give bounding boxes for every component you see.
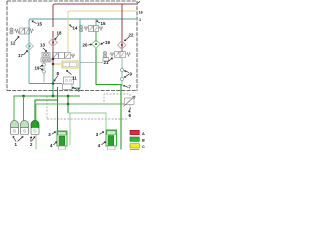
label 6 arrow xyxy=(128,108,130,113)
label 13 arrow xyxy=(43,48,47,52)
svg-text:14: 14 xyxy=(73,26,78,31)
node teal dot xyxy=(52,82,54,84)
label texts xyxy=(11,11,143,149)
svg-text:19: 19 xyxy=(105,40,110,45)
wire yellow bus xyxy=(68,11,136,52)
label 5 arrow xyxy=(73,87,78,89)
yellow box inner xyxy=(63,63,70,67)
node maroon dot xyxy=(52,58,54,60)
diamond 20 xyxy=(92,40,100,48)
valve V21 xyxy=(103,51,131,61)
label 8 arrow xyxy=(54,76,58,82)
svg-text:11: 11 xyxy=(72,76,77,81)
node dot2 xyxy=(52,95,54,97)
label 18 arrow xyxy=(55,35,59,40)
wire pump left main vertical xyxy=(57,87,59,131)
lamp 3 xyxy=(31,120,39,134)
wire gray connector line left xyxy=(43,60,45,82)
bus end mark maroon xyxy=(137,2,140,4)
svg-text:12: 12 xyxy=(11,41,16,46)
border frame (dashed) xyxy=(7,1,137,91)
wire light green frame right leg xyxy=(69,113,71,145)
label 20 arrow xyxy=(88,44,92,46)
wire lamp1 feed xyxy=(13,96,15,121)
wire green valve down right xyxy=(95,31,97,42)
wire teal horizontal to node xyxy=(29,83,62,85)
dashed box component 6 xyxy=(104,94,130,119)
svg-text:15: 15 xyxy=(101,21,106,26)
label 7 arrow xyxy=(124,85,129,87)
svg-text:13: 13 xyxy=(40,43,45,48)
lamp 1 xyxy=(11,120,19,134)
bottom border xyxy=(7,90,137,92)
svg-text:15: 15 xyxy=(37,22,42,27)
label 9 arrows xyxy=(125,70,130,72)
node yellow jog dot xyxy=(52,63,54,65)
label 12 arrow xyxy=(15,37,19,42)
diamond 22 xyxy=(118,41,126,49)
label 19 arrow right xyxy=(101,42,105,44)
label 21 arrow xyxy=(108,58,113,62)
valve V20 top right xyxy=(79,25,103,31)
dashed separator pumps xyxy=(47,118,129,120)
legend swatch A red xyxy=(130,130,139,134)
svg-text:21: 21 xyxy=(104,60,109,65)
wire connector line right xyxy=(121,58,123,86)
component 6 xyxy=(124,96,136,107)
top border xyxy=(7,0,137,2)
node dot104 xyxy=(67,103,69,105)
legend swatch D sliver xyxy=(130,148,139,151)
box A xyxy=(64,77,74,84)
label 14 arrow xyxy=(70,25,73,28)
svg-text:C: C xyxy=(142,145,145,149)
node dot3 xyxy=(67,95,69,97)
pump right xyxy=(106,130,117,150)
box B xyxy=(63,84,73,90)
label 17 arrow xyxy=(24,51,28,56)
labels with arrows xyxy=(13,2,140,146)
wire maroon bus xyxy=(53,4,136,27)
wire gray link valves xyxy=(81,62,104,64)
left border xyxy=(6,1,8,91)
svg-text:20: 20 xyxy=(83,43,88,48)
wire teal tap x95 xyxy=(95,19,97,26)
wire green below diamond xyxy=(96,48,121,150)
label 22 arrow xyxy=(125,37,130,41)
label 15 right xyxy=(97,21,101,23)
label 3 left arrows xyxy=(52,132,56,135)
legend swatch C yellow xyxy=(130,144,139,148)
svg-text:17: 17 xyxy=(18,53,23,58)
wire maroon mid vertical xyxy=(52,31,54,64)
legend swatch B green xyxy=(130,137,139,141)
label 1 arrows xyxy=(13,137,16,142)
valve V12 xyxy=(10,28,34,34)
diamond 18 xyxy=(49,38,57,46)
label 3 right arrow xyxy=(99,132,103,135)
teal module right side xyxy=(70,19,80,88)
svg-text:1: 1 xyxy=(139,18,141,22)
wire green long horizontal xyxy=(36,103,125,105)
node dot1 xyxy=(22,95,24,97)
wire dark vertical to bus xyxy=(52,64,54,96)
svg-text:16: 16 xyxy=(139,11,143,15)
valve V13 xyxy=(41,53,75,63)
label 15 left xyxy=(32,21,37,24)
svg-text:19: 19 xyxy=(35,66,40,71)
right border xyxy=(136,1,138,91)
yellow box xyxy=(62,61,78,68)
label 4 left arrow xyxy=(53,142,56,145)
wire light green branch xyxy=(68,113,106,130)
lamp 2 xyxy=(21,120,29,134)
dashed vertical separator xyxy=(46,96,48,119)
svg-text:A: A xyxy=(142,132,145,136)
svg-text:18: 18 xyxy=(57,31,62,36)
pump left xyxy=(57,131,67,150)
wire light green frame xyxy=(35,104,37,150)
wire lamp2 feed xyxy=(23,96,25,121)
connector circles 9 xyxy=(121,69,124,72)
wire lamp3 feed dark xyxy=(35,100,58,121)
connector circles 19 xyxy=(43,63,46,66)
wire green bus bottom xyxy=(14,95,81,97)
label 19 left arrows xyxy=(40,65,43,67)
label 11 arrow xyxy=(67,70,72,74)
wire maroon right vertical xyxy=(121,4,123,52)
wire pump left feed xyxy=(67,96,69,113)
wire teal left vertical xyxy=(28,27,30,84)
label 4 right arrow xyxy=(101,142,105,145)
svg-text:22: 22 xyxy=(129,33,134,38)
wire yellow jog xyxy=(53,63,61,65)
svg-text:B: B xyxy=(142,138,145,142)
wire net15 teal bus xyxy=(29,19,136,30)
label 2 arrows xyxy=(31,137,35,142)
diamond 17 xyxy=(26,42,34,50)
